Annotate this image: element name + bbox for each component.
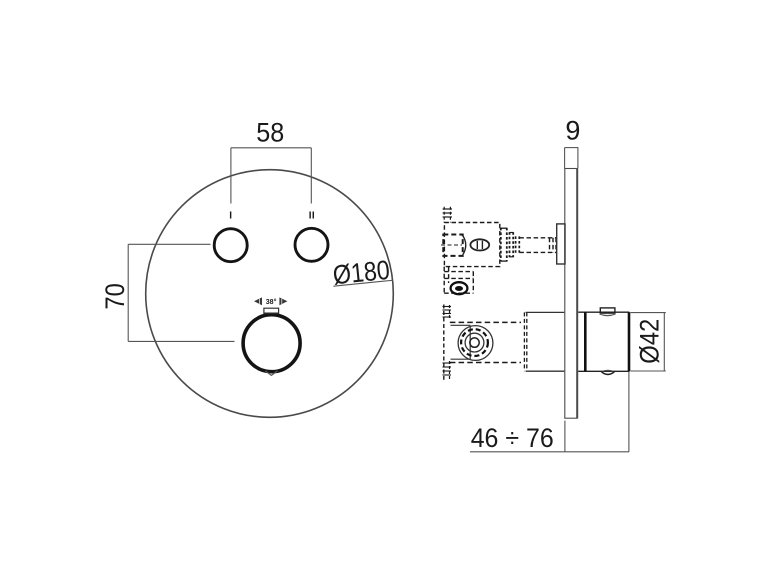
knob bottom button [601,371,615,374]
dimension 58 [231,148,311,204]
dimension 46-76 [470,372,629,452]
svg-text:70: 70 [100,283,130,310]
wall plate (side) [564,169,578,419]
knob I (left small knob) [214,229,247,262]
sleeve hidden edge (double dashed) [524,312,526,371]
sleeve (solid) [526,312,565,371]
knob II (right small knob) [295,228,328,261]
outlet flange at plate (solid) [557,224,565,264]
upper threaded stub [443,207,452,223]
thermostatic cartridge body (dashed) [450,322,521,362]
thermostat knob (large) [243,315,300,372]
cartridge flange face (solid) [451,325,471,359]
knob set screw tab [600,308,615,313]
svg-text:Ø42: Ø42 [634,319,664,364]
svg-text:38°: 38° [266,297,277,306]
thermostat knob index tab [264,308,279,313]
dimension 9 (plate thickness) [565,148,579,169]
38 degree label with arrows [254,297,287,305]
cartridge concentric rings [458,326,493,361]
stem to plate (dashed) [519,238,556,253]
knob (side view) [578,312,629,371]
threaded section right of body [501,228,520,262]
upper valve body (hidden, dashed) [444,223,499,267]
elbow down (dashed) [444,267,473,294]
trim plate circle O180 [146,170,394,418]
svg-text:58: 58 [256,118,284,148]
screw head oval [470,239,489,250]
lower mounting flange (dashed) [443,305,452,380]
svg-text:Ø180: Ø180 [331,255,391,291]
dimension 70 [128,244,234,341]
thermostat knob bottom notch [265,371,277,376]
svg-text:9: 9 [565,116,580,146]
dimension O180 leader [331,255,393,291]
svg-text:I: I [229,211,232,222]
shower outlet (ellipse with dark core) [451,282,468,294]
svg-text:II: II [309,211,315,222]
hex socket (left, dashed bold) [443,235,462,256]
dimension O42 [631,313,666,371]
svg-text:46 ÷ 76: 46 ÷ 76 [471,423,554,453]
